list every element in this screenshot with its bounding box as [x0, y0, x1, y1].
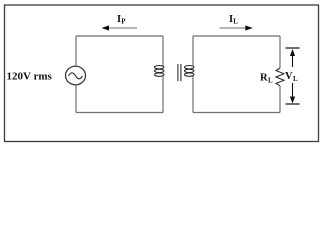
wire: primary loop left lower	[75, 85, 77, 113]
svg-text:L: L	[293, 75, 298, 83]
svg-text:120V rms: 120V rms	[7, 71, 53, 83]
transformer core	[178, 64, 181, 81]
VL measurement bottom tick	[286, 103, 300, 105]
svg-text:L: L	[233, 18, 238, 26]
border frame (decorative)	[5, 5, 319, 142]
label RL	[260, 73, 273, 85]
wire: secondary loop bottom	[193, 112, 280, 114]
VL arrow down	[290, 83, 295, 104]
current arrow IP (pointing left)	[102, 25, 138, 30]
AC source V1	[66, 66, 86, 85]
wire: primary loop right lower	[162, 76, 164, 113]
current arrow IL (pointing right)	[220, 25, 253, 30]
svg-text:R: R	[260, 73, 268, 84]
wire: primary loop top	[76, 35, 163, 37]
wire: secondary loop left upper	[192, 36, 194, 66]
wire: primary loop bottom	[76, 112, 163, 114]
label VL	[285, 71, 298, 83]
VL arrow up	[290, 49, 295, 67]
resistor RL zigzag	[276, 68, 284, 86]
transformer T1 primary winding	[155, 66, 164, 77]
transformer T1 secondary winding	[185, 66, 194, 77]
wire: primary loop left upper	[75, 36, 77, 67]
svg-text:P: P	[121, 18, 126, 26]
wire: secondary loop top	[193, 35, 280, 37]
svg-text:L: L	[268, 77, 273, 85]
wire: secondary loop right lower	[279, 86, 281, 113]
label IP	[117, 14, 126, 26]
wire: secondary loop right upper	[279, 36, 281, 68]
label IL	[229, 14, 238, 26]
wire: secondary loop left lower	[192, 76, 194, 113]
VL measurement top tick	[286, 47, 300, 49]
svg-text:V: V	[285, 71, 293, 82]
wire: primary loop right upper	[162, 36, 164, 66]
